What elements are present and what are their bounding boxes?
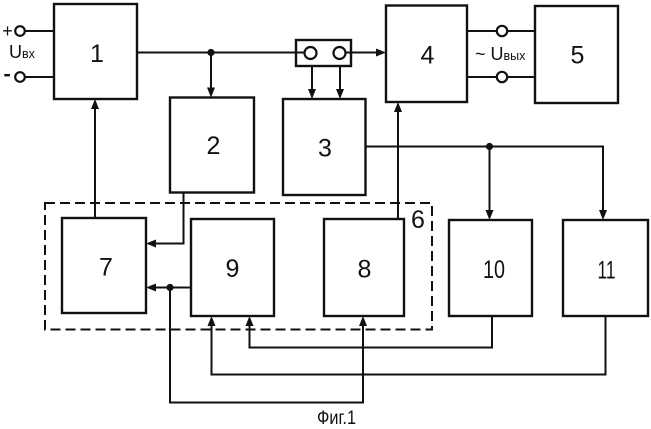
svg-text:6: 6 <box>411 206 425 234</box>
svg-text:8: 8 <box>358 256 372 284</box>
svg-text:3: 3 <box>318 135 332 163</box>
svg-text:+: + <box>2 21 13 41</box>
svg-text:10: 10 <box>483 256 505 284</box>
svg-text:4: 4 <box>421 42 435 70</box>
svg-text:11: 11 <box>598 257 616 285</box>
svg-text:7: 7 <box>99 254 113 282</box>
svg-text:5: 5 <box>571 42 585 70</box>
svg-text:2: 2 <box>207 132 221 160</box>
svg-text:Фиг.1: Фиг.1 <box>317 408 356 429</box>
svg-text:1: 1 <box>90 40 104 68</box>
svg-text:9: 9 <box>226 255 240 283</box>
